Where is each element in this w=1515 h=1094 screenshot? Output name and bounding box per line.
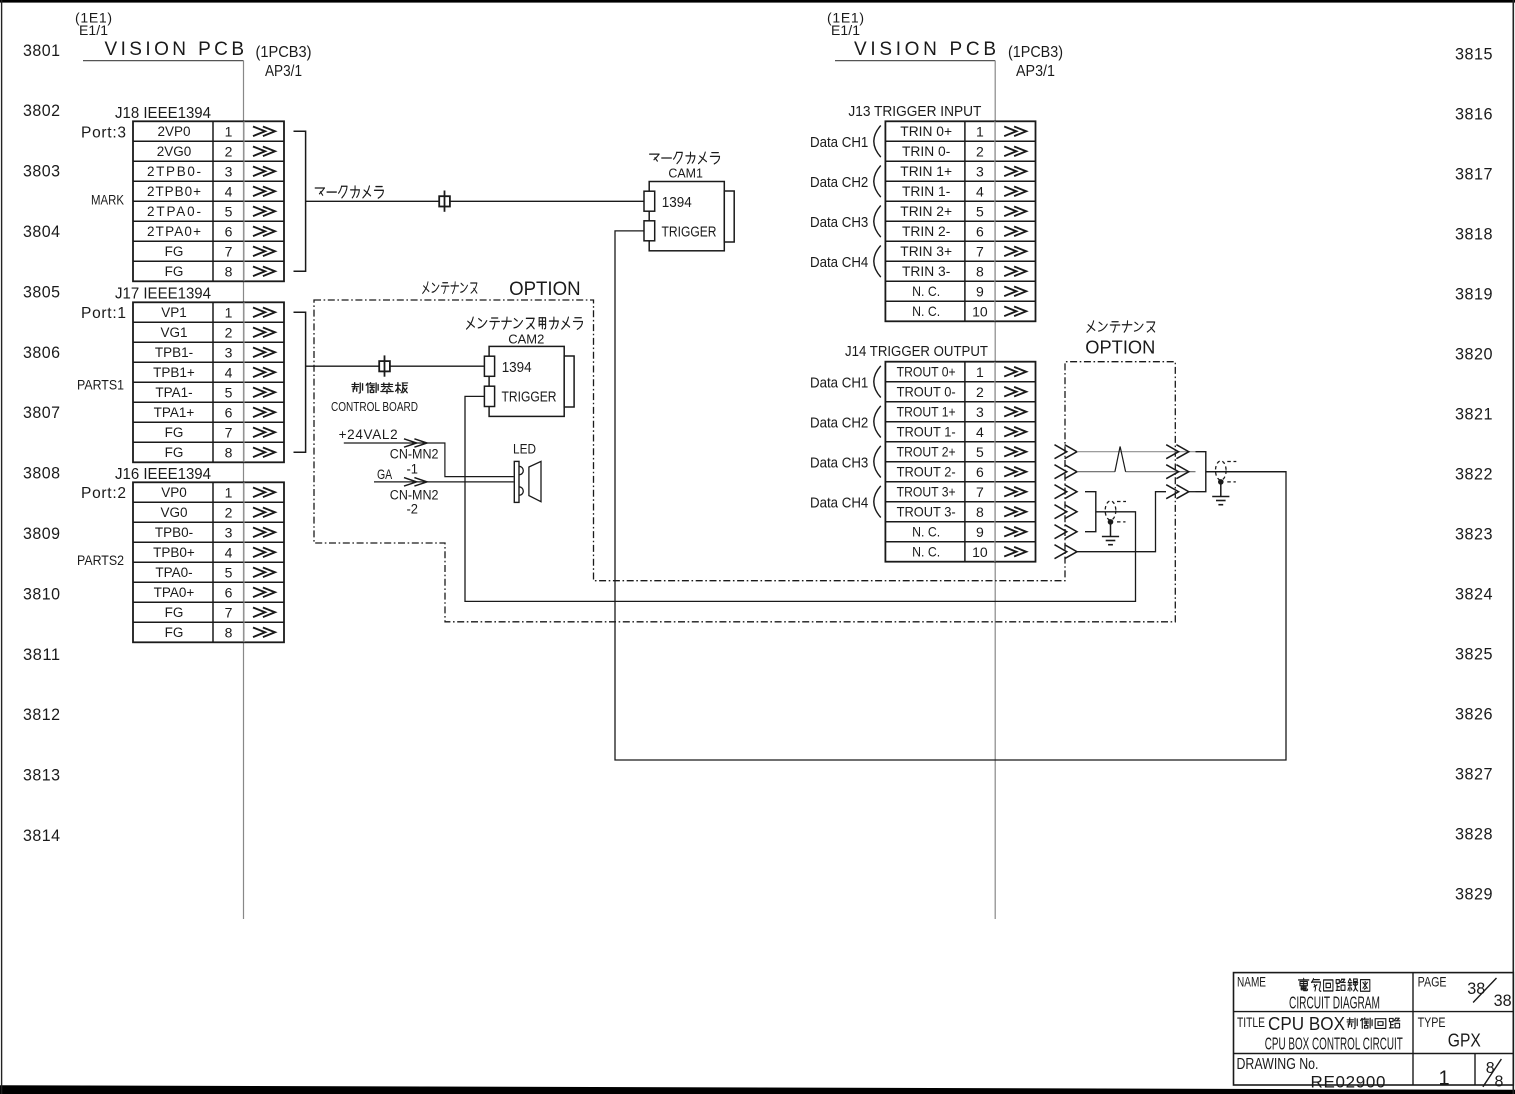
svg-text:3817: 3817 (1455, 165, 1493, 184)
svg-text:TROUT 0-: TROUT 0- (897, 385, 956, 400)
svg-text:CAM2: CAM2 (508, 331, 544, 346)
svg-text:3829: 3829 (1455, 885, 1493, 904)
svg-text:Data CH2: Data CH2 (810, 174, 868, 191)
svg-text:5: 5 (976, 444, 984, 460)
svg-text:1394: 1394 (662, 195, 692, 211)
svg-text:VG1: VG1 (160, 325, 187, 340)
svg-text:3: 3 (976, 404, 984, 420)
svg-text:3823: 3823 (1455, 525, 1493, 544)
svg-text:8: 8 (225, 444, 233, 460)
svg-text:8: 8 (976, 263, 984, 279)
ferrite filter FL1 (left) (1105, 501, 1126, 525)
svg-text:38: 38 (1494, 991, 1512, 1010)
svg-text:3828: 3828 (1455, 825, 1493, 844)
svg-text:8: 8 (225, 263, 233, 279)
wire J18 bracket to CAM1 1394 (294, 131, 306, 271)
svg-text:J17 IEEE1394: J17 IEEE1394 (115, 286, 211, 303)
svg-text:CONTROL BOARD: CONTROL BOARD (331, 399, 418, 414)
svg-text:FG: FG (165, 625, 184, 640)
wire NC10 loop to option (1055, 485, 1196, 559)
svg-text:(1PCB3): (1PCB3) (256, 44, 312, 61)
svg-text:TPB1-: TPB1- (155, 345, 193, 360)
svg-text:8: 8 (1495, 1074, 1504, 1091)
connector symbol inline J17 (379, 355, 390, 376)
svg-text:5: 5 (976, 203, 984, 219)
svg-text:3807: 3807 (23, 403, 61, 422)
connector J14 TRIGGER OUTPUT (845, 344, 1036, 562)
svg-text:FG: FG (165, 244, 184, 259)
svg-text:VISION PCB: VISION PCB (105, 39, 245, 60)
svg-text:FG: FG (165, 264, 184, 279)
ground (1102, 522, 1119, 545)
svg-text:2: 2 (225, 143, 233, 159)
svg-text:J16 IEEE1394: J16 IEEE1394 (115, 466, 211, 483)
label Data CH1 (J13) (810, 126, 881, 158)
svg-text:PARTS1: PARTS1 (77, 378, 124, 393)
border frame (0, 0, 1515, 3)
svg-text:5: 5 (225, 384, 233, 400)
svg-text:3813: 3813 (23, 766, 61, 785)
net GA (374, 466, 514, 486)
svg-text:CPU BOX: CPU BOX (1268, 1014, 1345, 1034)
svg-text:2TPA0+: 2TPA0+ (147, 224, 201, 239)
svg-text:6: 6 (225, 223, 233, 239)
svg-text:2TPB0+: 2TPB0+ (147, 184, 201, 199)
svg-text:3821: 3821 (1455, 405, 1493, 424)
svg-text:3819: 3819 (1455, 285, 1493, 304)
svg-text:TRIN 0-: TRIN 0- (902, 144, 950, 159)
svg-text:1: 1 (976, 123, 984, 139)
svg-text:3: 3 (976, 163, 984, 179)
svg-text:10: 10 (972, 544, 988, 560)
svg-text:3820: 3820 (1455, 345, 1493, 364)
svg-text:TRIN 3+: TRIN 3+ (900, 244, 952, 259)
connector J16 IEEE1394 (77, 466, 284, 642)
svg-text:AP3/1: AP3/1 (1016, 63, 1055, 80)
svg-text:3816: 3816 (1455, 105, 1493, 124)
svg-text:CN-MN2: CN-MN2 (390, 446, 439, 461)
svg-text:9: 9 (976, 283, 984, 299)
svg-text:7: 7 (976, 243, 984, 259)
svg-text:TROUT 3+: TROUT 3+ (897, 485, 956, 500)
svg-text:3805: 3805 (23, 282, 61, 301)
svg-text:6: 6 (225, 404, 233, 420)
connector J18 IEEE1394 (81, 105, 284, 281)
svg-text:(1PCB3): (1PCB3) (1008, 44, 1063, 61)
wire TROUT2- option path (1055, 465, 1196, 479)
svg-text:TRIN 2+: TRIN 2+ (900, 204, 952, 219)
svg-text:AP3/1: AP3/1 (265, 63, 302, 80)
svg-text:LED: LED (513, 440, 536, 456)
svg-text:5: 5 (225, 564, 233, 580)
camera CAM1 (644, 152, 734, 251)
label Data CH2 (J14) (810, 406, 881, 438)
connector J13 TRIGGER INPUT (848, 104, 1035, 321)
svg-text:1: 1 (1438, 1068, 1449, 1090)
svg-text:CAM1: CAM1 (668, 165, 703, 180)
svg-text:CIRCUIT DIAGRAM: CIRCUIT DIAGRAM (1289, 993, 1380, 1013)
svg-text:Port:2: Port:2 (81, 485, 126, 502)
svg-text:TROUT 2-: TROUT 2- (897, 465, 956, 480)
svg-text:TYPE: TYPE (1418, 1014, 1446, 1030)
svg-text:N. C.: N. C. (912, 304, 940, 319)
svg-text:PAGE: PAGE (1418, 973, 1447, 989)
svg-text:RE02900: RE02900 (1311, 1072, 1386, 1091)
svg-text:2: 2 (225, 324, 233, 340)
svg-text:3825: 3825 (1455, 645, 1493, 664)
svg-text:6: 6 (976, 464, 984, 480)
svg-text:J13 TRIGGER INPUT: J13 TRIGGER INPUT (848, 104, 981, 120)
svg-text:3804: 3804 (23, 222, 61, 241)
wire TROUT2+ option path (1055, 445, 1196, 459)
svg-text:3806: 3806 (23, 343, 61, 362)
svg-text:TPA0-: TPA0- (155, 565, 192, 580)
svg-text:DRAWING No.: DRAWING No. (1237, 1056, 1319, 1073)
svg-text:TPB1+: TPB1+ (153, 365, 195, 380)
svg-text:FG: FG (165, 425, 184, 440)
svg-text:3827: 3827 (1455, 765, 1493, 784)
connector J17 IEEE1394 (77, 286, 284, 463)
svg-text:3814: 3814 (23, 826, 61, 845)
wire bracket to right ferrite (1206, 471, 1286, 473)
svg-text:3809: 3809 (23, 524, 61, 543)
svg-text:Data CH1: Data CH1 (810, 375, 868, 392)
svg-text:3808: 3808 (23, 464, 61, 483)
svg-text:3818: 3818 (1455, 225, 1493, 244)
svg-text:Data CH4: Data CH4 (810, 495, 868, 512)
wire CAM2 trigger loop (465, 396, 1136, 601)
svg-text:TPB0-: TPB0- (155, 525, 193, 540)
svg-text:2: 2 (976, 143, 984, 159)
svg-text:VP0: VP0 (161, 485, 187, 500)
svg-text:3815: 3815 (1455, 45, 1493, 64)
svg-text:6: 6 (225, 584, 233, 600)
svg-text:GPX: GPX (1448, 1031, 1481, 1051)
ferrite filter FL2 (right) (1216, 461, 1237, 485)
svg-text:3826: 3826 (1455, 705, 1493, 724)
wire J17 bracket to CAM2 1394 (294, 312, 306, 452)
svg-text:4: 4 (225, 364, 233, 380)
svg-text:OPTION: OPTION (509, 279, 580, 300)
svg-text:1394: 1394 (502, 360, 532, 376)
svg-text:+24VAL2: +24VAL2 (339, 427, 398, 442)
svg-text:3801: 3801 (23, 41, 61, 60)
camera CAM2 (467, 317, 583, 416)
svg-text:3803: 3803 (23, 162, 61, 181)
svg-text:9: 9 (976, 524, 984, 540)
svg-text:3802: 3802 (23, 101, 61, 120)
svg-text:Data CH3: Data CH3 (810, 214, 868, 231)
svg-text:7: 7 (225, 604, 233, 620)
svg-text:J14 TRIGGER OUTPUT: J14 TRIGGER OUTPUT (845, 344, 988, 360)
svg-text:Data CH1: Data CH1 (810, 134, 868, 151)
svg-text:TRIN 2-: TRIN 2- (902, 224, 950, 239)
node bracket left pair (1085, 492, 1096, 532)
svg-text:4: 4 (976, 424, 984, 440)
svg-text:TRIGGER: TRIGGER (662, 225, 717, 241)
svg-text:Data CH4: Data CH4 (810, 254, 868, 271)
svg-text:3811: 3811 (23, 645, 61, 664)
svg-text:TPA1+: TPA1+ (154, 405, 195, 420)
svg-text:3: 3 (225, 344, 233, 360)
svg-text:2VP0: 2VP0 (157, 124, 190, 139)
svg-text:2: 2 (976, 384, 984, 400)
svg-text:3: 3 (225, 163, 233, 179)
svg-text:3: 3 (225, 524, 233, 540)
svg-text:3812: 3812 (23, 705, 61, 724)
svg-text:FG: FG (165, 445, 184, 460)
surge pulse symbol (1115, 447, 1126, 472)
svg-text:1: 1 (225, 123, 233, 139)
svg-text:TROUT 2+: TROUT 2+ (897, 445, 956, 460)
svg-text:MARK: MARK (91, 193, 124, 208)
svg-text:-2: -2 (407, 501, 419, 516)
svg-text:E1/1: E1/1 (831, 22, 860, 38)
label mark camera wire (315, 186, 383, 198)
svg-text:GA: GA (377, 466, 393, 482)
wire NC9 arrow (1055, 525, 1078, 539)
svg-text:PARTS2: PARTS2 (77, 553, 124, 568)
svg-text:VG0: VG0 (160, 505, 187, 520)
svg-text:N. C.: N. C. (912, 545, 940, 560)
net number column left (3801-3814) (23, 41, 61, 845)
svg-text:TPA0+: TPA0+ (154, 585, 195, 600)
label Data CH4 (J13) (810, 246, 881, 278)
svg-text:Data CH2: Data CH2 (810, 415, 868, 432)
wire VISION PCB right bus (835, 60, 995, 62)
node E1/1 VISION PCB left header (75, 9, 312, 80)
label Data CH3 (J13) (810, 206, 881, 238)
node bracket right pair (1196, 452, 1206, 492)
svg-text:TROUT 1-: TROUT 1- (897, 425, 956, 440)
svg-text:3810: 3810 (23, 584, 61, 603)
label CN-MN2-2 (390, 487, 439, 516)
label Data CH4 (J14) (810, 486, 881, 518)
svg-text:4: 4 (976, 183, 984, 199)
control board label (331, 383, 418, 414)
svg-text:TROUT 0+: TROUT 0+ (897, 365, 956, 380)
svg-text:4: 4 (225, 183, 233, 199)
svg-text:VP1: VP1 (161, 305, 187, 320)
svg-text:FG: FG (165, 605, 184, 620)
label Data CH2 (J13) (810, 166, 881, 198)
svg-text:1: 1 (225, 484, 233, 500)
title block (1234, 973, 1514, 1092)
svg-text:J18 IEEE1394: J18 IEEE1394 (115, 105, 211, 122)
wire TROUT3+ arrow (1055, 485, 1078, 499)
svg-text:TROUT 3-: TROUT 3- (897, 505, 956, 520)
svg-text:CN-MN2: CN-MN2 (390, 487, 439, 502)
label maintenance option left (423, 279, 581, 300)
svg-text:TITLE: TITLE (1237, 1014, 1265, 1030)
svg-text:TRIN 3-: TRIN 3- (902, 264, 950, 279)
wire TROUT3- arrow (1055, 505, 1078, 519)
svg-text:N. C.: N. C. (912, 284, 940, 299)
svg-text:6: 6 (976, 223, 984, 239)
svg-text:7: 7 (225, 243, 233, 259)
ground (1212, 482, 1229, 505)
label CN-MN2-1 (390, 446, 439, 476)
svg-text:8: 8 (225, 624, 233, 640)
svg-text:7: 7 (225, 424, 233, 440)
net number column right (3815-3829) (1455, 45, 1493, 904)
svg-text:CPU BOX CONTROL CIRCUIT: CPU BOX CONTROL CIRCUIT (1265, 1034, 1403, 1054)
svg-text:Port:3: Port:3 (81, 125, 126, 142)
svg-text:TRIN 1-: TRIN 1- (902, 184, 950, 199)
svg-text:8: 8 (1486, 1060, 1495, 1077)
svg-text:5: 5 (225, 203, 233, 219)
wire CAM1 trigger loop (615, 231, 1286, 760)
svg-text:TPB0+: TPB0+ (153, 545, 195, 560)
wire VISION PCB left bus (83, 60, 244, 62)
node E1/1 VISION PCB right header (827, 9, 1063, 80)
svg-text:-1: -1 (407, 462, 419, 477)
svg-text:NAME: NAME (1237, 973, 1266, 989)
svg-text:1: 1 (976, 364, 984, 380)
svg-text:2VG0: 2VG0 (157, 144, 192, 159)
net +24VAL2 (339, 427, 514, 477)
svg-text:3824: 3824 (1455, 585, 1493, 604)
svg-text:TROUT 1+: TROUT 1+ (897, 405, 956, 420)
svg-text:TPA1-: TPA1- (155, 385, 192, 400)
maintenance option dashed boundary (314, 300, 1175, 622)
label Data CH1 (J14) (810, 366, 881, 398)
svg-text:VISION PCB: VISION PCB (854, 39, 996, 60)
label maintenance option right (1085, 321, 1155, 357)
svg-text:E1/1: E1/1 (79, 22, 108, 38)
svg-text:Port:1: Port:1 (81, 305, 126, 322)
svg-text:TRIN 0+: TRIN 0+ (900, 124, 952, 139)
svg-text:38: 38 (1467, 979, 1485, 998)
label Data CH3 (J14) (810, 446, 881, 478)
svg-text:7: 7 (976, 484, 984, 500)
svg-text:2: 2 (225, 504, 233, 520)
connector symbol inline J18 (439, 191, 450, 212)
svg-text:TRIGGER: TRIGGER (502, 390, 557, 406)
svg-text:Data CH3: Data CH3 (810, 455, 868, 472)
svg-text:N. C.: N. C. (912, 525, 940, 540)
svg-text:3822: 3822 (1455, 465, 1493, 484)
svg-text:OPTION: OPTION (1085, 336, 1155, 357)
svg-text:10: 10 (972, 303, 988, 319)
svg-text:1: 1 (225, 304, 233, 320)
LED lamp (513, 440, 541, 502)
svg-text:8: 8 (976, 504, 984, 520)
svg-text:TRIN 1+: TRIN 1+ (900, 164, 952, 179)
svg-text:4: 4 (225, 544, 233, 560)
